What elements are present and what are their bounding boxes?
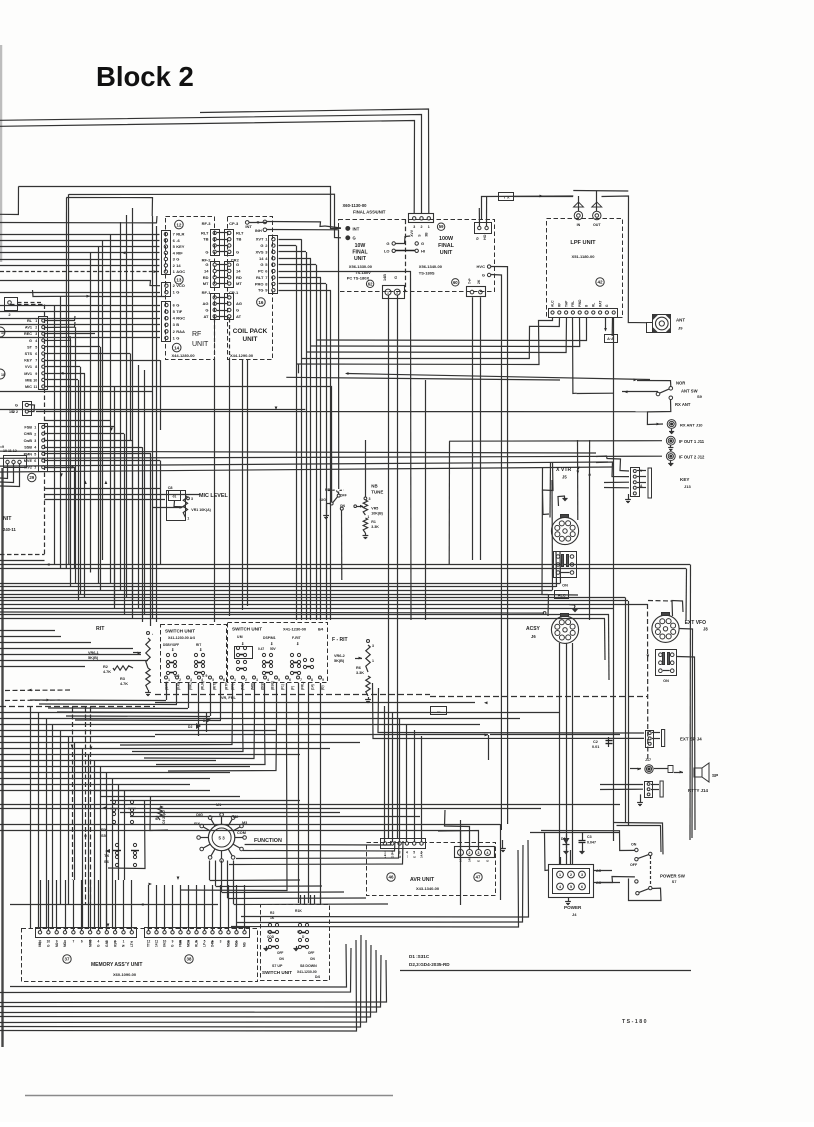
svg-text:CwB: CwB <box>24 439 33 443</box>
svg-text:8: 8 <box>311 678 313 682</box>
svg-text:240-11: 240-11 <box>3 527 16 532</box>
staircase from switch A pins going left-down <box>30 699 166 702</box>
svg-text:RIF: RIF <box>176 250 183 255</box>
svg-text:10: 10 <box>33 378 37 382</box>
svg-text:COD: COD <box>267 935 275 939</box>
wire LPF out to ANT J9 <box>602 196 647 323</box>
svg-text:G: G <box>176 335 179 340</box>
wire arrow above strip A <box>33 290 91 297</box>
svg-text:G: G <box>386 241 389 246</box>
svg-text:4.7K: 4.7K <box>120 682 128 686</box>
divider dashed <box>405 220 407 293</box>
ALC boxed label <box>555 591 569 599</box>
svg-text:3: 3 <box>372 644 374 648</box>
svg-text:C2: C2 <box>593 740 598 744</box>
svg-text:X44-1290-00: X44-1290-00 <box>230 353 254 358</box>
svg-text:X VTR: X VTR <box>556 467 572 473</box>
svg-text:4: 4 <box>559 885 561 889</box>
svg-text:2: 2 <box>421 225 423 229</box>
svg-text:—: — <box>405 855 409 858</box>
scan artifact top left marks <box>0 45 2 262</box>
IF OUT 2 J12 jack <box>0 451 596 453</box>
svg-text:OFF: OFF <box>277 951 283 955</box>
connector strip 14 <box>162 302 171 342</box>
svg-text:5: 5 <box>204 940 206 944</box>
svg-text:AGC: AGC <box>176 269 185 274</box>
svg-text:RLT: RLT <box>201 230 209 235</box>
svg-text:RX ANT J10: RX ANT J10 <box>680 423 703 428</box>
circled 29 <box>28 473 36 481</box>
svg-text:MV1: MV1 <box>24 372 32 376</box>
svg-text:37: 37 <box>65 957 70 962</box>
svg-text:IN: IN <box>577 223 581 227</box>
svg-text:FUNCTION: FUNCTION <box>254 838 282 844</box>
svg-text:XVT: XVT <box>256 237 264 242</box>
wire MV1 arrow <box>44 373 85 375</box>
wire from G102 <box>28 405 35 412</box>
svg-text:UNIT: UNIT <box>440 250 453 256</box>
svg-text:RTTY J14: RTTY J14 <box>688 788 708 793</box>
FUNCTION spoke wires down <box>209 861 211 881</box>
svg-text:G: G <box>353 236 356 241</box>
wire right verticals from mid-bus down <box>500 824 502 900</box>
svg-text:7: 7 <box>35 359 37 363</box>
svg-text:14B: 14B <box>468 856 472 862</box>
EXT VFO top loop wire <box>672 601 683 617</box>
svg-text:TⁿP: TⁿP <box>468 278 472 284</box>
svg-text:COM: COM <box>237 831 246 835</box>
svg-text:3: 3 <box>34 439 36 443</box>
svg-text:S7: S7 <box>672 880 677 884</box>
wire RX ANT down to J10 <box>647 400 670 425</box>
ANT SW switch <box>669 387 673 391</box>
svg-text:1: 1 <box>372 659 374 663</box>
FINAL ASSY UNIT box <box>339 220 495 292</box>
svg-text:3: 3 <box>369 497 371 501</box>
svg-text:LPF UNIT: LPF UNIT <box>570 240 596 246</box>
svg-text:FMR: FMR <box>179 939 183 947</box>
wire left corner group A <box>18 187 341 229</box>
svg-text:UNIT: UNIT <box>354 256 367 262</box>
svg-text:R1K: R1K <box>295 909 302 913</box>
svg-text:U M: U M <box>237 635 243 639</box>
svg-text:VCO: VCO <box>176 283 185 288</box>
svg-text:G: G <box>205 308 208 313</box>
wire top bus line 2 <box>0 121 415 214</box>
ANT J9 connector <box>653 315 671 333</box>
svg-text:13: 13 <box>176 277 182 282</box>
SP speaker <box>694 763 709 782</box>
svg-text:NIT: NIT <box>3 516 12 522</box>
wires EXT VFO right <box>679 629 693 839</box>
svg-text:S8 DOWN: S8 DOWN <box>300 964 317 968</box>
verticals x625 x628 <box>625 598 627 824</box>
svg-text:⇓: ⇓ <box>296 641 299 646</box>
long vertical x613 <box>613 317 615 841</box>
connector strip 12 <box>162 231 171 275</box>
svg-text:2: 2 <box>35 326 37 330</box>
svg-text:(14): (14) <box>311 684 315 690</box>
svg-text:POWER: POWER <box>564 905 582 910</box>
svg-text:2K: 2K <box>477 279 481 284</box>
svg-text:ALC: ALC <box>558 593 566 597</box>
dashed coax verticals with arrows <box>72 707 74 880</box>
wire mid horizontals from left <box>0 391 152 393</box>
left dashed box arrows lower <box>5 689 70 692</box>
svg-text:10: 10 <box>47 940 51 944</box>
svg-text:EXT SP J4: EXT SP J4 <box>680 737 702 742</box>
svg-text:E: E <box>477 860 481 862</box>
svg-text:8: 8 <box>35 365 37 369</box>
dashed bus line lower-left <box>0 706 155 708</box>
svg-text:TX: TX <box>104 853 109 858</box>
svg-text:11: 11 <box>33 385 37 389</box>
svg-text:C3: C3 <box>587 835 592 839</box>
svg-text:11: 11 <box>155 940 159 944</box>
svg-text:R6: R6 <box>356 666 361 670</box>
svg-text:ANT: ANT <box>676 318 685 323</box>
svg-text:HVC: HVC <box>477 264 486 269</box>
svg-text:X51-1180-00: X51-1180-00 <box>572 254 596 259</box>
svg-text:DSP/M1: DSP/M1 <box>263 636 276 640</box>
svg-text:1: 1 <box>384 851 386 855</box>
gnd stubs bottom switch <box>266 946 268 948</box>
wires 14B G down to AVR <box>388 295 390 838</box>
svg-text:EXT VFO: EXT VFO <box>685 620 707 626</box>
svg-text:G: G <box>236 308 239 313</box>
scan artifact left edge line <box>1 468 3 1047</box>
svg-text:S7 UP: S7 UP <box>272 964 283 968</box>
svg-text:3: 3 <box>256 678 258 682</box>
wires into 4pin strip <box>460 820 462 850</box>
POWER SW lower switch <box>596 877 635 883</box>
svg-text:R2: R2 <box>103 665 108 669</box>
svg-text:100W: 100W <box>439 236 454 242</box>
svg-text:S9: S9 <box>697 394 703 399</box>
wire memory arrows <box>107 924 110 928</box>
svg-text:⇓: ⇓ <box>270 641 273 646</box>
wires link strips down continue <box>214 358 216 622</box>
svg-text:STS: STS <box>25 352 33 356</box>
svg-text:CP-1: CP-1 <box>229 290 239 295</box>
SWITCH UNIT A box <box>161 625 227 683</box>
svg-text:2: 2 <box>570 873 572 877</box>
bottom switch S7 S8 <box>268 923 271 926</box>
svg-text:ON: ON <box>663 679 669 683</box>
svg-text:6: 6 <box>223 678 225 682</box>
scan artifact bottom line <box>25 1095 393 1097</box>
svg-text:D1 :S31C: D1 :S31C <box>409 954 430 959</box>
bottom nested bus lines <box>0 960 387 1003</box>
LPF strip drops <box>296 317 553 365</box>
svg-text:G: G <box>176 290 179 295</box>
svg-text:RLT: RLT <box>256 275 264 280</box>
FUNCTION wires right to AVR <box>245 841 391 845</box>
wire long horizontals mid-low <box>0 804 620 806</box>
svg-text:MVE: MVE <box>24 459 33 463</box>
wire top bus line 3 <box>200 109 429 213</box>
svg-text:50V: 50V <box>270 647 277 651</box>
svg-text:GAT: GAT <box>105 940 109 947</box>
svg-text:3: 3 <box>413 225 415 229</box>
svg-text:CHB: CHB <box>24 432 32 436</box>
svg-text:X43-1340-00: X43-1340-00 <box>416 886 440 891</box>
svg-text:5: 5 <box>278 678 280 682</box>
svg-text:X60-1130-00: X60-1130-00 <box>343 203 368 208</box>
svg-text:(VRL): (VRL) <box>189 682 193 691</box>
svg-text:J5: J5 <box>562 475 567 480</box>
svg-text:18: 18 <box>1 373 5 377</box>
wires top of bottom switch unit <box>300 895 302 904</box>
svg-text:XVS: XVS <box>255 250 263 255</box>
svg-text:RST: RST <box>113 941 117 947</box>
long horizontals y466 y472 <box>0 462 608 466</box>
svg-text:29: 29 <box>29 475 34 480</box>
wire vertical x425 <box>425 380 427 620</box>
svg-text:RLR: RLR <box>176 232 184 237</box>
svg-text:7: 7 <box>300 678 302 682</box>
wire horizontals into left unit lower <box>45 488 161 490</box>
svg-text:LTH: LTH <box>130 940 134 947</box>
wire verticals from strip A staircase <box>75 327 77 583</box>
svg-text:3: 3 <box>478 851 480 855</box>
wire top bus line 1 <box>0 115 422 214</box>
svg-text:J17: J17 <box>645 758 651 762</box>
svg-text:HI: HI <box>421 248 425 253</box>
svg-text:MIC: MIC <box>25 385 32 389</box>
svg-text:IF OUT 1 J11: IF OUT 1 J11 <box>679 439 705 444</box>
RX ANT J10 jack <box>667 420 676 429</box>
wires HVC G right <box>491 267 508 825</box>
svg-text:VV1: VV1 <box>25 365 32 369</box>
svg-text:60: 60 <box>453 280 458 285</box>
svg-text:X56-1340-00: X56-1340-00 <box>419 264 443 269</box>
svg-text:G: G <box>236 249 239 254</box>
svg-text:5 3: 5 3 <box>219 836 226 841</box>
wire NB links <box>341 510 343 580</box>
svg-text:14: 14 <box>236 269 241 274</box>
svg-text:6: 6 <box>35 352 37 356</box>
svg-text:1: 1 <box>428 225 430 229</box>
svg-text:6: 6 <box>581 885 583 889</box>
wire into EXT SP <box>378 688 644 733</box>
svg-text:1: 1 <box>168 678 170 682</box>
svg-text:LO: LO <box>384 248 390 253</box>
svg-text:14B: 14B <box>383 274 387 281</box>
svg-text:42: 42 <box>597 280 603 285</box>
svg-text:MS: MS <box>243 942 247 947</box>
svg-text:2: 2 <box>245 678 247 682</box>
svg-text:12: 12 <box>176 222 182 227</box>
wire ANT SW left arrow <box>622 391 658 393</box>
svg-text:ACSY: ACSY <box>526 626 541 632</box>
svg-text:G: G <box>260 243 263 248</box>
svg-text:1: 1 <box>387 291 389 295</box>
svg-text:F-RIT: F-RIT <box>292 636 302 640</box>
pin G 10W <box>346 236 350 240</box>
svg-text:9: 9 <box>35 372 37 376</box>
connector strip 13 <box>162 283 171 297</box>
svg-text:2: 2 <box>34 432 36 436</box>
svg-text:0.047: 0.047 <box>587 841 596 845</box>
svg-text:MIE: MIE <box>25 378 32 382</box>
LPF bottom strip <box>549 309 618 318</box>
svg-text:TT: TT <box>147 943 151 947</box>
A-A boxed label <box>605 335 618 343</box>
svg-text:KEY: KEY <box>24 359 32 363</box>
svg-text:10W: 10W <box>355 243 366 249</box>
svg-text:C3: C3 <box>267 930 271 934</box>
svg-text:0.01: 0.01 <box>592 745 599 749</box>
svg-text:G: G <box>482 273 485 278</box>
svg-text:(RIT): (RIT) <box>213 683 217 690</box>
wire MIC arrow <box>44 386 115 388</box>
svg-text:8A: 8A <box>163 942 167 947</box>
svg-text:RF-3: RF-3 <box>202 221 212 226</box>
MUT boxed label <box>431 707 447 715</box>
svg-text:3: 3 <box>581 873 583 877</box>
svg-text:RF-1: RF-1 <box>202 290 212 295</box>
wires into memory strips from top <box>40 880 42 931</box>
svg-text:X56-1330-00: X56-1330-00 <box>349 264 373 269</box>
svg-text:14: 14 <box>174 345 180 350</box>
svg-text:(BSB): (BSB) <box>271 681 275 690</box>
svg-text:INT: INT <box>245 224 252 229</box>
svg-text:≈9: ≈9 <box>0 445 4 449</box>
relay area box wires <box>108 800 145 869</box>
svg-text:E: E <box>412 856 416 858</box>
circled 62 <box>366 280 373 287</box>
svg-text:INT: INT <box>353 226 360 231</box>
switch B pins 6-9 long drops <box>180 729 287 891</box>
svg-text:9: 9 <box>322 678 324 682</box>
svg-text:12: 12 <box>147 940 151 944</box>
SWITCH UNIT B box <box>228 623 328 683</box>
switch B pins <box>231 676 234 679</box>
svg-text:G: G <box>394 276 398 279</box>
pin INT <box>245 221 249 225</box>
svg-text:J6: J6 <box>531 634 536 639</box>
svg-text:4.7K: 4.7K <box>103 670 111 674</box>
svg-text:10: 10 <box>163 940 167 944</box>
svg-text:RF: RF <box>558 303 562 307</box>
FUNCTION rotary switch S3 <box>208 824 234 850</box>
dashed stubs below link strips <box>214 319 216 359</box>
half circled 15 <box>0 327 5 337</box>
svg-text:J8: J8 <box>703 627 708 632</box>
wire vertical from IF corner <box>448 441 450 564</box>
svg-text:C6 22µO: C6 22µO <box>162 810 166 824</box>
svg-text:46: 46 <box>389 875 394 880</box>
wire into ACSY <box>543 612 546 615</box>
AVR strip 6pin <box>381 839 426 849</box>
svg-text:6: 6 <box>81 940 83 944</box>
svg-text:RL: RL <box>27 319 33 323</box>
svg-text:X41-1230-00 A⁄4: X41-1230-00 A⁄4 <box>168 636 195 640</box>
svg-text:5: 5 <box>34 452 36 456</box>
svg-text:5K(B): 5K(B) <box>88 656 99 660</box>
connector strip 14B G <box>383 286 405 299</box>
circled 42 <box>596 278 604 286</box>
svg-text:AVR UNIT: AVR UNIT <box>410 877 435 883</box>
svg-text:6: 6 <box>289 678 291 682</box>
svg-text:4: 4 <box>35 339 37 343</box>
svg-text:4: 4 <box>406 851 408 855</box>
svg-text:PC: PC <box>258 269 264 274</box>
XVTR enclosure wires <box>542 468 578 595</box>
svg-text:TS-180: TS-180 <box>622 1019 648 1025</box>
svg-text:ON: ON <box>279 957 284 961</box>
svg-text:OFF: OFF <box>630 863 638 867</box>
svg-text:MEMORY ASSʽY UNIT: MEMORY ASSʽY UNIT <box>91 962 142 968</box>
svg-text:1: 1 <box>187 517 189 521</box>
svg-text:4: 4 <box>98 940 100 944</box>
svg-text:FINAL: FINAL <box>352 250 368 256</box>
wire left corner group B <box>0 216 157 223</box>
svg-text:X41-1230-00: X41-1230-00 <box>297 970 317 974</box>
svg-text:IF OUT 2 J12: IF OUT 2 J12 <box>679 455 705 460</box>
memory to bus stubs <box>10 944 347 987</box>
2-pin box with circle top left <box>5 298 18 311</box>
wire verticals lower left <box>30 706 32 929</box>
svg-text:G S: G S <box>391 853 395 858</box>
svg-text:G: G <box>176 257 179 262</box>
svg-text:SWITCH UNIT: SWITCH UNIT <box>232 627 262 632</box>
EXT VFO ON switch <box>656 650 677 676</box>
svg-text:ON: ON <box>631 843 637 847</box>
svg-text:ON: ON <box>310 957 315 961</box>
svg-text:ON: ON <box>562 584 568 588</box>
svg-text:RX ANT: RX ANT <box>675 402 691 407</box>
wire TX line to LPF <box>482 196 574 220</box>
svg-text:UNIT: UNIT <box>243 336 258 343</box>
svg-text:(0.41): (0.41) <box>177 682 181 690</box>
connector strip A RL..MIC <box>39 317 48 390</box>
svg-text:0.47: 0.47 <box>258 647 264 651</box>
svg-text:KEY: KEY <box>680 477 689 482</box>
COIL PACK UNIT box <box>228 217 273 360</box>
AVR strip 4pin circled <box>455 847 495 858</box>
wire J17 to SP <box>654 768 668 770</box>
bottom SWITCH UNIT box <box>261 905 330 981</box>
svg-text:RIT: RIT <box>96 626 105 632</box>
wires POWER top <box>560 857 562 864</box>
connector strip B FSB..MV2 <box>39 424 48 472</box>
svg-text:14: 14 <box>155 943 159 947</box>
note underline <box>400 970 691 972</box>
3-pin connector 10 11 12 <box>4 456 27 468</box>
connector strip 16 <box>269 236 278 294</box>
svg-text:2: 2 <box>396 291 398 295</box>
svg-text:UNIT: UNIT <box>192 341 209 348</box>
svg-text:RD: RD <box>236 275 242 280</box>
wires into strips 13 14 from left <box>0 281 160 286</box>
ACSY gnd stub <box>569 605 575 608</box>
svg-text:TS-180S: TS-180S <box>419 270 435 275</box>
wire verticals from strip B staircase <box>44 426 115 428</box>
svg-text:3: 3 <box>220 940 222 944</box>
POWER J4 connector <box>549 865 594 898</box>
ACSY drop wires <box>559 643 561 864</box>
svg-text:R1: R1 <box>371 520 376 524</box>
svg-text:G: G <box>236 262 239 267</box>
svg-text:CP-3: CP-3 <box>229 221 239 226</box>
svg-text:AT: AT <box>203 314 209 319</box>
svg-text:PWD: PWD <box>578 299 582 307</box>
wire G HO up <box>486 196 488 226</box>
RF UNIT box <box>166 217 215 360</box>
POWER SW top loop wires <box>614 823 663 855</box>
